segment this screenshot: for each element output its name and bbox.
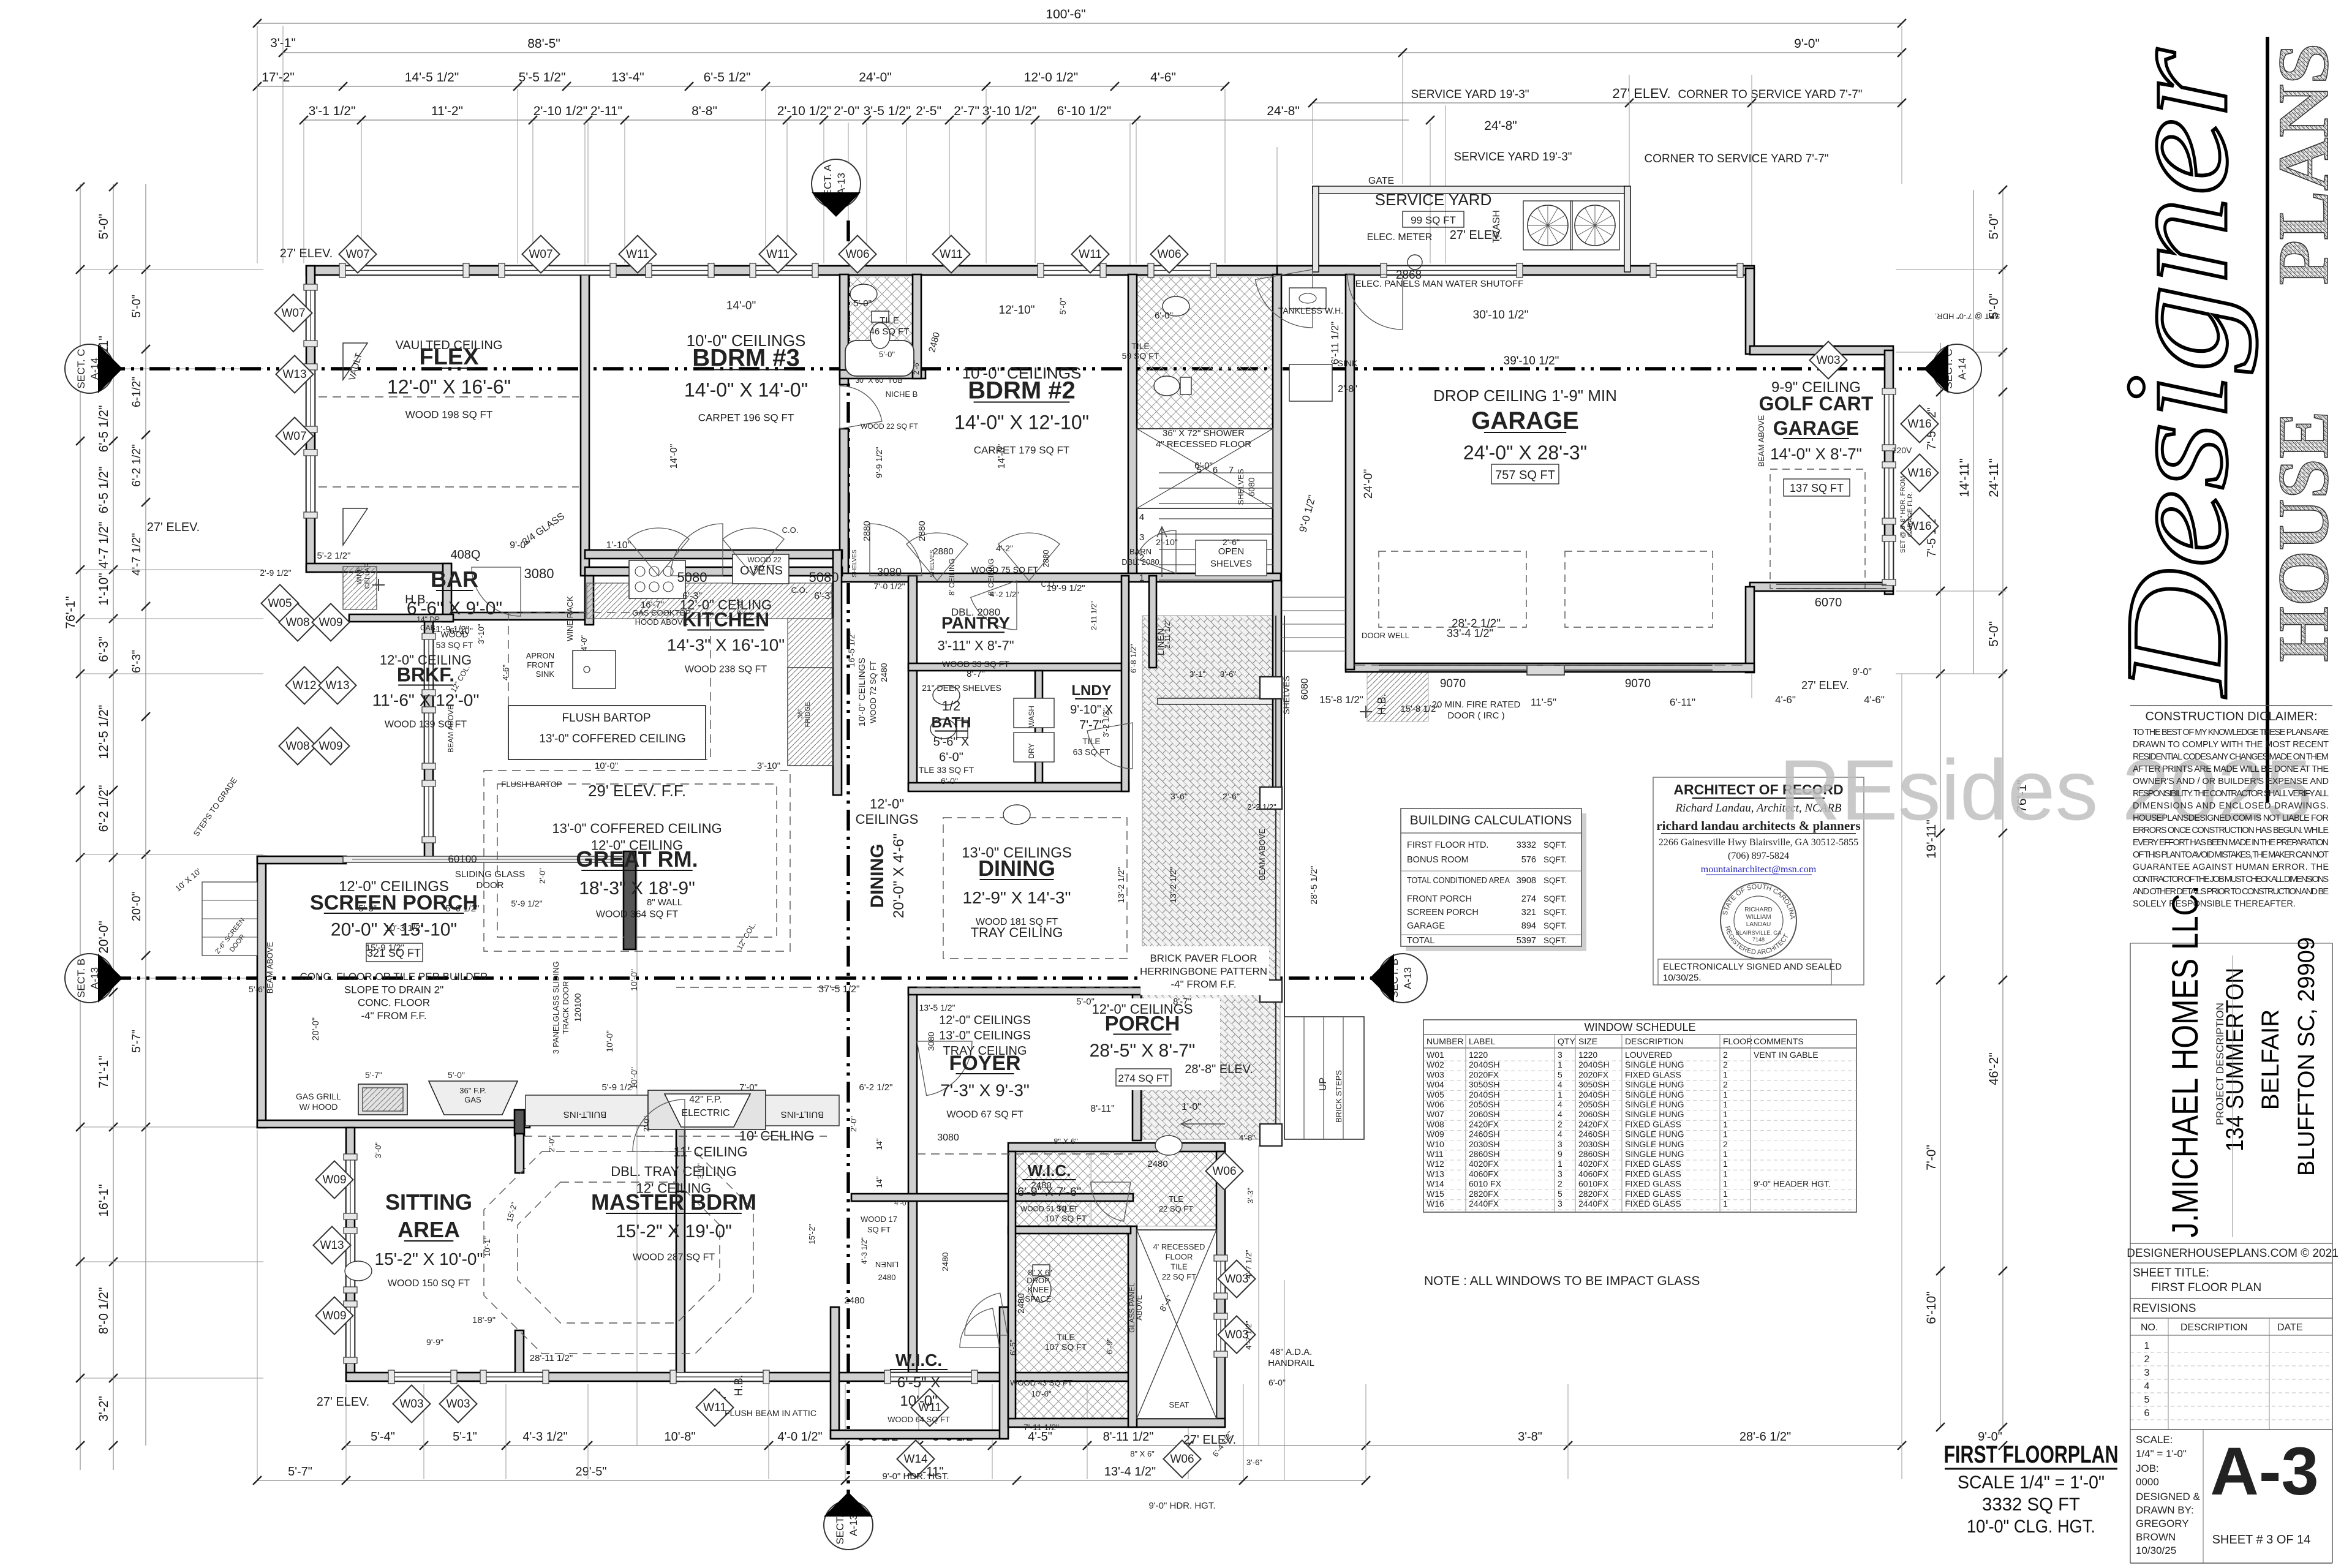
svg-text:W11: W11 [703,1401,726,1414]
svg-text:TANKLESS W.H.: TANKLESS W.H. [1278,306,1343,315]
svg-text:SINGLE HUNG: SINGLE HUNG [1625,1139,1684,1149]
svg-text:WOOD 67 SQ FT: WOOD 67 SQ FT [946,1110,1023,1120]
svg-text:9'-9 1/2": 9'-9 1/2" [874,447,884,478]
svg-text:2: 2 [1723,1050,1728,1060]
svg-text:C.O.: C.O. [1041,580,1057,589]
svg-text:DESCRIPTION: DESCRIPTION [2180,1322,2247,1333]
svg-text:5'-4": 5'-4" [371,1430,395,1444]
svg-text:10'-1": 10'-1" [483,1236,492,1257]
svg-text:28'-5 1/2": 28'-5 1/2" [1309,865,1319,904]
svg-text:SINK: SINK [536,669,555,679]
svg-text:W12: W12 [292,679,316,692]
svg-text:4: 4 [1558,1080,1562,1090]
svg-text:2880: 2880 [933,546,953,557]
svg-text:4'-0": 4'-0" [579,635,589,651]
svg-text:NOTE : ALL WINDOWS TO BE IMP: NOTE : ALL WINDOWS TO BE IMPACT GLASS [1424,1274,1700,1288]
svg-text:TILE: TILE [1082,736,1101,746]
svg-text:2: 2 [1723,1060,1728,1069]
svg-text:GARAGE: GARAGE [1471,407,1579,434]
svg-text:120V: 120V [1892,445,1912,455]
svg-text:W07: W07 [1427,1109,1444,1119]
svg-text:GREGORY: GREGORY [2136,1518,2189,1529]
svg-text:1: 1 [1723,1159,1728,1169]
svg-text:6'-3": 6'-3" [97,636,111,662]
svg-text:3'-5 1/2": 3'-5 1/2" [864,104,911,118]
svg-text:6'-5": 6'-5" [1008,1340,1017,1355]
svg-text:4'-6": 4'-6" [1775,694,1796,706]
svg-text:5'-7": 5'-7" [288,1465,312,1479]
svg-text:2480: 2480 [940,1252,950,1271]
svg-text:15'-2": 15'-2" [807,1224,816,1245]
svg-text:8" X 6": 8" X 6" [1028,1268,1052,1277]
svg-text:2040SH: 2040SH [1469,1060,1500,1069]
svg-text:13'-0" COFFERED CEILING: 13'-0" COFFERED CEILING [539,733,685,745]
svg-text:W11: W11 [1427,1149,1444,1159]
svg-text:10' CEILING: 10' CEILING [739,1128,815,1144]
svg-text:5'-1": 5'-1" [453,1430,477,1444]
svg-text:5'-0": 5'-0" [448,1070,465,1080]
svg-text:1/2: 1/2 [942,698,961,714]
svg-text:2-11 1/2": 2-11 1/2" [1163,619,1172,648]
svg-text:3080: 3080 [926,1031,936,1050]
svg-text:W14: W14 [903,1453,928,1466]
svg-text:29' ELEV. F.F.: 29' ELEV. F.F. [588,782,686,800]
svg-text:OPEN: OPEN [1218,546,1245,557]
svg-text:UP: UP [1318,1077,1329,1091]
svg-text:BONUS ROOM: BONUS ROOM [1407,855,1469,865]
svg-text:14": 14" [875,1176,884,1188]
svg-text:2020FX: 2020FX [1469,1069,1499,1079]
svg-text:14'-3" X 16'-10": 14'-3" X 16'-10" [667,636,785,655]
svg-text:6080: 6080 [1300,678,1310,700]
svg-text:10'-0" CEILINGS: 10'-0" CEILINGS [857,658,867,726]
svg-text:SINGLE HUNG: SINGLE HUNG [1625,1090,1684,1099]
svg-text:16'-5 1/2": 16'-5 1/2" [846,631,856,667]
svg-text:36" X 72" SHOWER: 36" X 72" SHOWER [1163,428,1245,439]
svg-text:6010FX: 6010FX [1578,1179,1609,1189]
svg-text:13'-2 1/2": 13'-2 1/2" [1116,867,1126,903]
svg-text:2880: 2880 [1041,550,1050,568]
svg-text:12'-0": 12'-0" [870,796,904,812]
svg-text:6'-3": 6'-3" [814,591,834,601]
svg-text:2040SH: 2040SH [1578,1090,1610,1099]
svg-text:FIRST FLOOR PLAN: FIRST FLOOR PLAN [2151,1281,2261,1294]
svg-text:TLE: TLE [1169,1194,1183,1204]
svg-text:BROWN: BROWN [2136,1531,2176,1543]
svg-text:5'-3": 5'-3" [358,903,377,914]
svg-text:2460SH: 2460SH [1469,1129,1500,1139]
svg-text:SQ FT: SQ FT [867,1225,891,1234]
svg-text:W04: W04 [1427,1080,1444,1090]
svg-text:6'-8 1/2": 6'-8 1/2" [1129,644,1138,673]
svg-text:9'-0" HEADER HGT.: 9'-0" HEADER HGT. [1754,1179,1831,1189]
svg-text:3332 SQ FT: 3332 SQ FT [1982,1494,2080,1515]
svg-text:WOOD 75 SQ FT: WOOD 75 SQ FT [971,565,1038,575]
svg-text:5'-0 1/2": 5'-0 1/2" [446,903,480,914]
svg-text:GAS GRILL: GAS GRILL [296,1091,341,1101]
svg-text:W06: W06 [1427,1099,1444,1109]
svg-text:3'-10": 3'-10" [757,761,780,771]
svg-text:28'-5" X 8'-7": 28'-5" X 8'-7" [1090,1041,1196,1061]
svg-text:WOOD 150 SQ FT: WOOD 150 SQ FT [388,1278,470,1289]
svg-text:3080: 3080 [524,566,554,581]
svg-text:6'-3": 6'-3" [682,591,702,601]
svg-text:6'-5 1/2": 6'-5 1/2" [97,467,111,514]
svg-text:Designer: Designer [2095,48,2258,698]
svg-text:DESIGNED &: DESIGNED & [2136,1491,2201,1502]
svg-text:3080: 3080 [877,566,902,578]
svg-text:SET @ 6'-8" HDR. FROM: SET @ 6'-8" HDR. FROM [1899,476,1907,553]
svg-text:W06: W06 [1157,248,1181,261]
svg-text:SERVICE YARD: SERVICE YARD [1375,190,1492,209]
svg-text:9'-0" HDR. HGT.: 9'-0" HDR. HGT. [882,1471,949,1482]
svg-text:12'-5 1/2": 12'-5 1/2" [97,705,111,759]
svg-text:4'-2": 4'-2" [996,543,1013,553]
svg-text:-4" FROM F.F.: -4" FROM F.F. [1170,979,1236,990]
svg-text:4020FX: 4020FX [1469,1159,1499,1169]
svg-text:6'-3": 6'-3" [130,650,143,673]
svg-text:100'-6": 100'-6" [1046,7,1085,21]
svg-text:2: 2 [1723,1139,1728,1149]
svg-text:4'-0 1/2": 4'-0 1/2" [777,1430,822,1444]
svg-text:SHELVES: SHELVES [1236,469,1245,505]
svg-text:3: 3 [1558,1139,1562,1149]
svg-text:WOOD 22 SQ FT: WOOD 22 SQ FT [861,422,919,431]
svg-text:99 SQ FT: 99 SQ FT [1411,214,1456,226]
svg-text:SHELVES: SHELVES [851,549,858,578]
svg-text:2'-0": 2'-0" [547,1136,556,1152]
svg-text:W07: W07 [345,248,369,261]
svg-text:2480: 2480 [844,1295,864,1306]
svg-text:DESCRIPTION: DESCRIPTION [1625,1036,1684,1046]
svg-text:2'-0": 2'-0" [538,868,547,884]
svg-text:4: 4 [2144,1381,2150,1392]
svg-text:RESPONSIBILITY. THE CONTRACTOR: RESPONSIBILITY. THE CONTRACTOR SHALL VER… [2133,789,2329,799]
svg-text:15'-2" X 10'-0": 15'-2" X 10'-0" [375,1249,483,1268]
svg-text:408Q: 408Q [451,548,481,562]
svg-text:59 SQ FT: 59 SQ FT [1122,351,1159,361]
svg-text:W13: W13 [1427,1169,1444,1178]
svg-text:29'-5": 29'-5" [576,1465,607,1479]
svg-text:1: 1 [1558,1159,1562,1169]
svg-text:21" DEEP SHELVES: 21" DEEP SHELVES [922,683,1001,693]
svg-text:4'-0": 4'-0" [894,1199,909,1207]
svg-text:2480: 2480 [878,1273,896,1282]
svg-text:15'-9 1/2": 15'-9 1/2" [366,943,404,953]
svg-text:SCALE:: SCALE: [2136,1434,2173,1445]
svg-text:11'-2": 11'-2" [431,104,463,118]
svg-text:SQFT.: SQFT. [1543,908,1567,917]
svg-text:LABEL: LABEL [1469,1036,1496,1046]
svg-text:SECT. C: SECT. C [75,349,87,388]
svg-text:1: 1 [1723,1090,1728,1099]
svg-text:FLOOR: FLOOR [1166,1252,1193,1261]
svg-text:FRONT: FRONT [527,660,554,669]
svg-text:18'-3" X 18'-9": 18'-3" X 18'-9" [579,878,695,899]
svg-text:12'-0" CEILINGS: 12'-0" CEILINGS [939,1014,1031,1027]
svg-text:TO THE BEST OF MY KNOWLEDGE TH: TO THE BEST OF MY KNOWLEDGE THESE PLANS … [2133,728,2329,737]
svg-text:2: 2 [1558,1119,1562,1129]
svg-text:20'-0": 20'-0" [97,921,111,954]
svg-text:ELECTRIC: ELECTRIC [681,1108,729,1118]
svg-text:A-3: A-3 [2210,1434,2318,1509]
svg-text:7'-0 1/2": 7'-0 1/2" [873,581,905,591]
svg-text:W11: W11 [626,248,649,261]
svg-text:12'-9" X 14'-3": 12'-9" X 14'-3" [963,888,1071,907]
svg-text:24'-0": 24'-0" [859,70,892,85]
svg-text:SCALE 1/4" = 1'-0": SCALE 1/4" = 1'-0" [1958,1472,2105,1493]
svg-text:30" X 60" TUB: 30" X 60" TUB [855,376,902,385]
svg-text:5'-0": 5'-0" [130,295,143,318]
svg-text:DOOR: DOOR [477,880,504,891]
svg-text:W09: W09 [318,616,342,629]
svg-text:HOUSEPLANSDESIGNED.COM IS NOT: HOUSEPLANSDESIGNED.COM IS NOT LIABLE FOR [2133,813,2329,823]
svg-text:14'-0" X 14'-0": 14'-0" X 14'-0" [684,379,808,401]
svg-text:2'-0": 2'-0" [735,598,744,614]
svg-text:2'-11": 2'-11" [590,104,622,118]
svg-text:6'-10 1/2": 6'-10 1/2" [1057,104,1112,118]
svg-text:EVERY EFFORT HAS BEEN MADE IN: EVERY EFFORT HAS BEEN MADE IN THE PREPAR… [2133,838,2329,848]
svg-text:GATE: GATE [1368,176,1394,186]
svg-text:LOUVERED: LOUVERED [1625,1050,1672,1060]
svg-text:6070: 6070 [1815,596,1842,609]
svg-text:W03: W03 [446,1398,470,1411]
svg-text:-4" FROM F.F.: -4" FROM F.F. [361,1010,426,1022]
svg-text:3: 3 [1558,1199,1562,1208]
svg-text:2'-8": 2'-8" [1338,384,1357,394]
svg-text:OWNER'S AND / OR BUILDER'S EXP: OWNER'S AND / OR BUILDER'S EXPENSE AND [2133,777,2329,786]
svg-text:2'-9 1/2": 2'-9 1/2" [260,568,291,578]
svg-text:CARPET 196 SQ FT: CARPET 196 SQ FT [698,412,794,424]
svg-text:5: 5 [1558,1189,1562,1199]
svg-text:13'-0" COFFERED CEILING: 13'-0" COFFERED CEILING [552,821,722,836]
svg-text:1: 1 [1723,1099,1728,1109]
svg-text:8'-11 1/2": 8'-11 1/2" [1103,1430,1154,1444]
svg-text:W03: W03 [399,1398,423,1411]
svg-text:6'-2 1/2": 6'-2 1/2" [97,785,111,832]
svg-text:GARAGE FLR.: GARAGE FLR. [1907,492,1914,537]
svg-text:5'-6" X: 5'-6" X [933,736,970,749]
svg-text:PANTRY: PANTRY [941,613,1010,632]
svg-text:3'-0": 3'-0" [374,1142,383,1158]
svg-text:4'-6": 4'-6" [1150,70,1176,85]
svg-text:FIXED GLASS: FIXED GLASS [1625,1119,1681,1129]
svg-text:10'-0": 10'-0" [605,1030,614,1052]
svg-text:2480: 2480 [1016,1293,1027,1313]
svg-text:24'-0": 24'-0" [1362,469,1375,499]
svg-text:DIMENSIONS AND ENCLOSED DRAWIN: DIMENSIONS AND ENCLOSED DRAWINGS. [2133,801,2329,811]
svg-text:6-1/2": 6-1/2" [130,377,143,407]
svg-text:2: 2 [1558,1179,1562,1189]
svg-text:7'-11 1/2": 7'-11 1/2" [1023,1422,1059,1432]
svg-text:W08: W08 [1427,1119,1444,1129]
svg-text:CONTRACTOR OF THE JOB MUST CHE: CONTRACTOR OF THE JOB MUST CHECK ALL DIM… [2133,875,2329,884]
svg-text:10'-0": 10'-0" [595,761,618,771]
svg-text:14'-11": 14'-11" [1958,458,1972,497]
svg-text:BDRM #2: BDRM #2 [968,377,1076,404]
svg-text:11'-9 1/2": 11'-9 1/2" [431,624,469,635]
svg-text:6010 FX: 6010 FX [1469,1179,1502,1189]
svg-text:5080: 5080 [809,570,839,585]
svg-text:SITTING: SITTING [385,1189,472,1215]
svg-text:4" RECESSED FLOOR: 4" RECESSED FLOOR [1156,439,1251,450]
svg-text:11'-6" X 12'-0": 11'-6" X 12'-0" [372,691,480,710]
svg-text:2'-5": 2'-5" [916,104,941,118]
svg-text:22 SQ FT: 22 SQ FT [1159,1204,1193,1213]
svg-text:H.B.: H.B. [405,593,429,606]
svg-text:SINGLE HUNG: SINGLE HUNG [1625,1060,1684,1069]
svg-text:4020FX: 4020FX [1578,1159,1609,1169]
svg-text:4'-2 1/2": 4'-2 1/2" [990,590,1019,599]
svg-text:TOTAL CONDITIONED AREA: TOTAL CONDITIONED AREA [1407,876,1510,886]
svg-text:LANDAU: LANDAU [1746,921,1771,928]
svg-text:HOUSE: HOUSE [2263,411,2343,662]
svg-text:FIXED GLASS: FIXED GLASS [1625,1169,1681,1178]
svg-text:(706) 897-5824: (706) 897-5824 [1728,851,1789,861]
svg-text:BAR: BAR [431,567,478,592]
svg-text:4'-6": 4'-6" [1864,694,1885,706]
svg-text:321: 321 [1521,908,1536,918]
svg-text:1: 1 [1723,1179,1728,1189]
svg-text:14'-0" X 8'-7": 14'-0" X 8'-7" [1770,445,1862,463]
svg-text:10/30/25.: 10/30/25. [1663,973,1702,983]
svg-text:FIRST FLOORPLAN: FIRST FLOORPLAN [1944,1441,2119,1468]
svg-text:3 PANELGLASS SLIDING: 3 PANELGLASS SLIDING [551,961,560,1054]
svg-text:2860SH: 2860SH [1469,1149,1500,1159]
svg-text:H.B.: H.B. [1376,693,1388,715]
svg-text:W08: W08 [285,616,309,629]
svg-text:RICHARD: RICHARD [1744,907,1773,913]
svg-text:W03: W03 [1816,354,1840,367]
svg-text:SINK: SINK [1338,358,1358,368]
svg-text:14'-5 1/2": 14'-5 1/2" [405,70,459,85]
svg-text:8'-7": 8'-7" [1173,997,1191,1007]
svg-text:3'-10": 3'-10" [477,624,486,644]
svg-text:2480: 2480 [879,663,889,682]
svg-text:10'-0": 10'-0" [900,1393,937,1409]
svg-text:576: 576 [1521,855,1536,865]
svg-text:14": 14" [875,1138,884,1150]
svg-text:10'-0": 10'-0" [629,969,639,991]
svg-text:DRY: DRY [1027,743,1036,758]
svg-text:5'-0": 5'-0" [1987,621,2001,647]
svg-text:W05: W05 [268,597,292,610]
svg-text:OF THIS PLAN TO AVOID MISTAKES: OF THIS PLAN TO AVOID MISTAKES, THE MAKE… [2133,850,2329,860]
svg-text:GUARANTEE AGAINST HUMAN ERROR.: GUARANTEE AGAINST HUMAN ERROR. THE [2133,862,2329,872]
svg-text:2'-6": 2'-6" [1223,791,1240,801]
svg-text:9'-0": 9'-0" [1852,667,1872,677]
svg-text:SINGLE HUNG: SINGLE HUNG [1625,1129,1684,1139]
svg-text:7148: 7148 [1752,937,1765,943]
svg-text:TILE: TILE [1057,1204,1075,1213]
svg-text:6'-9": 6'-9" [1105,1338,1114,1354]
svg-text:2050SH: 2050SH [1578,1099,1610,1109]
svg-text:C.O.: C.O. [791,586,808,595]
svg-text:2880: 2880 [862,521,872,541]
svg-text:FLUSH BEAM IN ATTIC: FLUSH BEAM IN ATTIC [725,1408,816,1418]
svg-text:3: 3 [1558,1169,1562,1178]
svg-text:2420FX: 2420FX [1469,1119,1499,1129]
svg-text:SHELVES: SHELVES [1281,676,1291,715]
svg-text:2480: 2480 [1031,1180,1051,1191]
svg-text:2860SH: 2860SH [1578,1149,1610,1159]
svg-text:20'-0" X 4'-6": 20'-0" X 4'-6" [891,834,907,918]
svg-text:TRAY CEILING: TRAY CEILING [971,925,1063,940]
svg-text:20 MIN. FIRE RATED: 20 MIN. FIRE RATED [1432,699,1521,710]
svg-text:SINGLE HUNG: SINGLE HUNG [1625,1149,1684,1159]
svg-text:BUILT-INS: BUILT-INS [781,1109,824,1120]
svg-text:W01: W01 [1427,1050,1444,1060]
svg-text:W09: W09 [318,740,342,753]
svg-text:6'-5 1/2": 6'-5 1/2" [97,405,111,453]
svg-text:12'-0 1/2": 12'-0 1/2" [1024,70,1079,85]
svg-text:APRON: APRON [526,651,554,660]
svg-text:1: 1 [1723,1119,1728,1129]
svg-text:H.B.: H.B. [733,1374,745,1396]
svg-text:15'-8 1/2": 15'-8 1/2" [1319,694,1363,706]
svg-text:5'-5 1/2": 5'-5 1/2" [519,70,566,85]
svg-text:BATH: BATH [932,715,971,731]
svg-text:W16: W16 [1907,467,1931,480]
svg-text:1'-10": 1'-10" [97,573,111,606]
svg-text:1: 1 [2144,1341,2150,1351]
svg-text:3'-6": 3'-6" [1246,1458,1262,1467]
svg-text:WOOD 22: WOOD 22 [747,556,782,564]
svg-text:5397: 5397 [1517,936,1536,946]
svg-text:4'-5": 4'-5" [1028,1430,1052,1444]
svg-text:6'-0": 6'-0" [1268,1378,1286,1387]
svg-text:2440FX: 2440FX [1578,1199,1609,1208]
svg-text:1220: 1220 [1578,1050,1597,1060]
svg-text:SINGLE HUNG: SINGLE HUNG [1625,1080,1684,1090]
svg-text:2'-2 1/2": 2'-2 1/2" [1247,802,1276,812]
svg-text:W13: W13 [320,1239,344,1252]
svg-text:1/4" = 1'-0": 1/4" = 1'-0" [2136,1448,2187,1460]
svg-text:6'-0": 6'-0" [1194,461,1213,471]
svg-text:BLAIRSVILLE, GA: BLAIRSVILLE, GA [1736,930,1782,936]
svg-text:5'-7": 5'-7" [365,1070,382,1080]
svg-text:SHELVES: SHELVES [1210,559,1252,569]
svg-text:4: 4 [1558,1099,1562,1109]
svg-text:4'-7 1/2": 4'-7 1/2" [130,533,143,576]
svg-text:1: 1 [1723,1189,1728,1199]
svg-text:SQFT.: SQFT. [1543,840,1567,850]
svg-text:GARAGE: GARAGE [1407,921,1445,931]
svg-text:FRIDGE.: FRIDGE. [804,700,812,728]
svg-text:MASTER BDRM: MASTER BDRM [591,1189,756,1215]
svg-text:WOOD 364 SQ FT: WOOD 364 SQ FT [596,910,678,920]
svg-text:TILE: TILE [880,315,899,326]
svg-text:46'-2": 46'-2" [1987,1052,2001,1085]
svg-text:3'-2": 3'-2" [97,1396,111,1422]
svg-text:FIXED GLASS: FIXED GLASS [1625,1199,1681,1208]
svg-text:A-13: A-13 [1402,967,1414,989]
svg-text:ELECTRONICALLY SIGNED AND SEAL: ELECTRONICALLY SIGNED AND SEALED [1663,962,1842,972]
svg-text:63 SQ FT: 63 SQ FT [1073,747,1110,757]
svg-text:12'-10": 12'-10" [999,304,1035,317]
svg-text:4'-7 1/2": 4'-7 1/2" [1244,1249,1253,1279]
svg-text:24'-0" X 28'-3": 24'-0" X 28'-3" [1463,442,1587,464]
svg-text:1: 1 [1558,1060,1562,1069]
svg-text:2040SH: 2040SH [1578,1060,1610,1069]
svg-text:9'-0" HDR. HGT.: 9'-0" HDR. HGT. [1148,1501,1215,1511]
svg-text:mountainarchitect@msn.com: mountainarchitect@msn.com [1701,864,1817,875]
svg-text:A-13: A-13 [848,1514,859,1536]
svg-text:3332: 3332 [1517,840,1536,850]
svg-text:6'-0": 6'-0" [941,776,958,786]
svg-text:SQFT.: SQFT. [1543,894,1567,903]
svg-text:AND OTHER DETAILS PRIOR TO CON: AND OTHER DETAILS PRIOR TO CONSTRUCTION … [2133,887,2329,897]
